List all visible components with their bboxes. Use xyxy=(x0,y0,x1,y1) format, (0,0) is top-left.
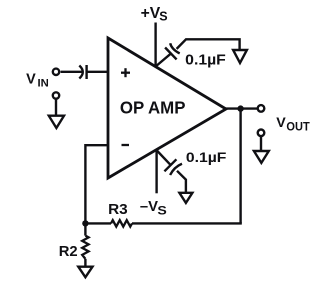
op-amp U1 body xyxy=(108,38,226,178)
op-amp non-inverting input marker + xyxy=(121,68,130,77)
svg-text:S: S xyxy=(159,10,167,24)
svg-text:OP AMP: OP AMP xyxy=(120,97,186,117)
wire op-amp output xyxy=(225,107,258,109)
svg-text:0.1µF: 0.1µF xyxy=(186,150,227,166)
svg-text:R3: R3 xyxy=(108,202,128,218)
svg-text:V: V xyxy=(276,115,286,131)
svg-text:0.1µF: 0.1µF xyxy=(185,52,226,68)
svg-text:IN: IN xyxy=(38,78,49,90)
capacitor C3 -VS decoupling 0.1uF xyxy=(156,150,186,193)
svg-text:OUT: OUT xyxy=(286,122,309,134)
resistor R2 xyxy=(82,223,88,266)
svg-text:R2: R2 xyxy=(59,244,78,260)
ground VOUT xyxy=(254,151,269,163)
terminal VOUT xyxy=(258,105,265,112)
wire VOUT ground terminal xyxy=(260,136,262,151)
svg-text:S: S xyxy=(157,204,166,218)
terminal VIN xyxy=(53,69,59,75)
op-amp inverting input marker - xyxy=(122,144,130,146)
wire C1 to op-amp + input xyxy=(87,71,109,73)
wire VIN to C1 xyxy=(61,71,83,73)
ground +VS decoupling xyxy=(233,50,247,63)
wire -VS supply xyxy=(155,149,157,193)
terminal VOUT ground xyxy=(258,130,265,137)
ground VIN xyxy=(49,116,64,128)
node feedback junction xyxy=(82,220,88,226)
svg-text:+V: +V xyxy=(141,5,161,22)
wire +VS supply xyxy=(154,23,156,68)
wire VIN ground terminal xyxy=(55,99,57,116)
terminal VIN ground xyxy=(53,92,59,98)
wire junction to R3 xyxy=(85,222,111,224)
node output junction xyxy=(237,105,243,111)
resistor R3 xyxy=(111,220,132,226)
wire feedback vertical xyxy=(239,109,241,224)
svg-text:V: V xyxy=(26,72,36,88)
capacitor C1 input coupling xyxy=(79,65,86,79)
ground -VS decoupling xyxy=(179,193,192,203)
capacitor C2 +VS decoupling 0.1uF xyxy=(156,39,240,66)
wire junction to inverting input xyxy=(85,145,109,223)
wire feedback horizontal xyxy=(132,222,242,224)
ground R2 xyxy=(78,267,92,278)
svg-text:–V: –V xyxy=(140,199,158,215)
